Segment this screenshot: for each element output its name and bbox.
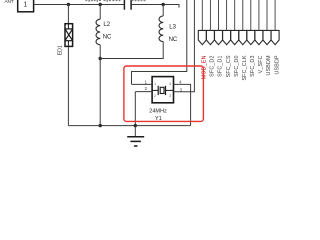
svg-text:NC: NC [169, 37, 178, 43]
wire L2 top lead [99, 5, 101, 20]
pin flag SFC_D3 wire [247, 0, 255, 45]
svg-text:2: 2 [144, 86, 147, 91]
wire crystal pin3 stub to ground corner [174, 0, 195, 92]
crystal Y1 symbol crystal rect [160, 87, 164, 93]
red highlight box [124, 66, 203, 121]
svg-text:2: 2 [154, 93, 156, 98]
node junction on ANT wire at L3 [162, 3, 165, 6]
wire ED1 bottom lead down to ground rail [67, 46, 69, 125]
crystal Y1 body box [152, 77, 173, 103]
svg-text:1: 1 [23, 0, 27, 9]
svg-text:SFC_D3: SFC_D3 [250, 55, 256, 77]
pin flag USBDM wire [263, 0, 271, 45]
svg-text:USBDM: USBDM [266, 55, 272, 75]
svg-text:ED1: ED1 [57, 45, 63, 55]
pin flag SFC_D2 wire [206, 0, 214, 45]
svg-text:USBDP: USBDP [274, 55, 280, 75]
node junction L2 bottom to crystal feed [99, 57, 102, 60]
svg-text:1: 1 [154, 81, 156, 86]
wire ground rail horizontal [68, 125, 190, 127]
svg-text:SFC_CLK: SFC_CLK [242, 55, 248, 81]
ESD suppressor ED1 body [65, 24, 73, 47]
capacitor C1 plate left [123, 0, 125, 10]
port P1 box [18, 0, 34, 12]
wire ANT main horizontal [34, 4, 125, 6]
node junction pin2 wire at ground rail [134, 124, 137, 127]
crystal Y1 symbol left plate [157, 86, 159, 95]
pin flag MOD_EN wire [198, 0, 206, 45]
node junction on ANT wire at ED1 [67, 3, 70, 6]
inductor L2 [96, 19, 100, 45]
pin flag SFC_D1 wire [215, 0, 223, 45]
svg-text:ANT: ANT [5, 0, 14, 5]
node junction on ANT wire at L2 [99, 3, 102, 6]
bus pin flags group [198, 0, 280, 81]
pin flag USBDP wire [271, 0, 279, 45]
capacitor C1 plate right [130, 0, 132, 10]
pin flag SFC_CLK wire [239, 0, 247, 45]
svg-text:4: 4 [179, 79, 182, 84]
wire L3 top lead [162, 5, 164, 17]
svg-text:L2: L2 [103, 22, 110, 28]
svg-text:3: 3 [169, 93, 171, 98]
svg-text:V_SFC: V_SFC [258, 55, 264, 73]
wire from capacitor to corner [131, 5, 179, 8]
pin flag SFC_D0 wire [231, 0, 239, 45]
wire crystal pin2 stub [135, 91, 152, 93]
wire crystal pin1 stub [132, 83, 153, 85]
crystal Y1 internal lead right [166, 89, 174, 91]
pin flag V_SFC wire [255, 0, 263, 45]
svg-text:SFC_D1: SFC_D1 [218, 55, 224, 77]
svg-text:4: 4 [169, 81, 172, 86]
crystal Y1 symbol right plate [165, 86, 167, 95]
svg-text:24MHz: 24MHz [149, 109, 167, 115]
value text remnant right (cut off at top) [132, 0, 146, 1]
svg-text:1: 1 [144, 80, 147, 85]
node junction L2 at ground rail [99, 124, 102, 127]
pin flag SFC_CS wire [223, 0, 231, 45]
svg-text:NC: NC [103, 35, 112, 41]
wire crystal feed horizontal to L3 bottom [100, 42, 163, 59]
svg-text:SFC_CS: SFC_CS [226, 55, 232, 77]
inductor L3 [159, 16, 163, 42]
svg-text:SFC_D0: SFC_D0 [234, 55, 240, 77]
wire L2 bottom lead down to ground rail [99, 45, 101, 126]
wire crystal pin4 stub and route up [174, 84, 191, 125]
svg-text:L3: L3 [169, 25, 176, 31]
wire ED1 top lead [67, 5, 69, 24]
wire crystal pin2 route down to ground symbol [134, 92, 136, 137]
value text remnant left (cut off at top) [86, 0, 121, 2]
wire crystal pin1 route up and right [132, 0, 187, 84]
crystal Y1 internal lead left [152, 89, 158, 91]
ground symbol [127, 137, 144, 146]
svg-text:SFC_D2: SFC_D2 [210, 55, 216, 77]
